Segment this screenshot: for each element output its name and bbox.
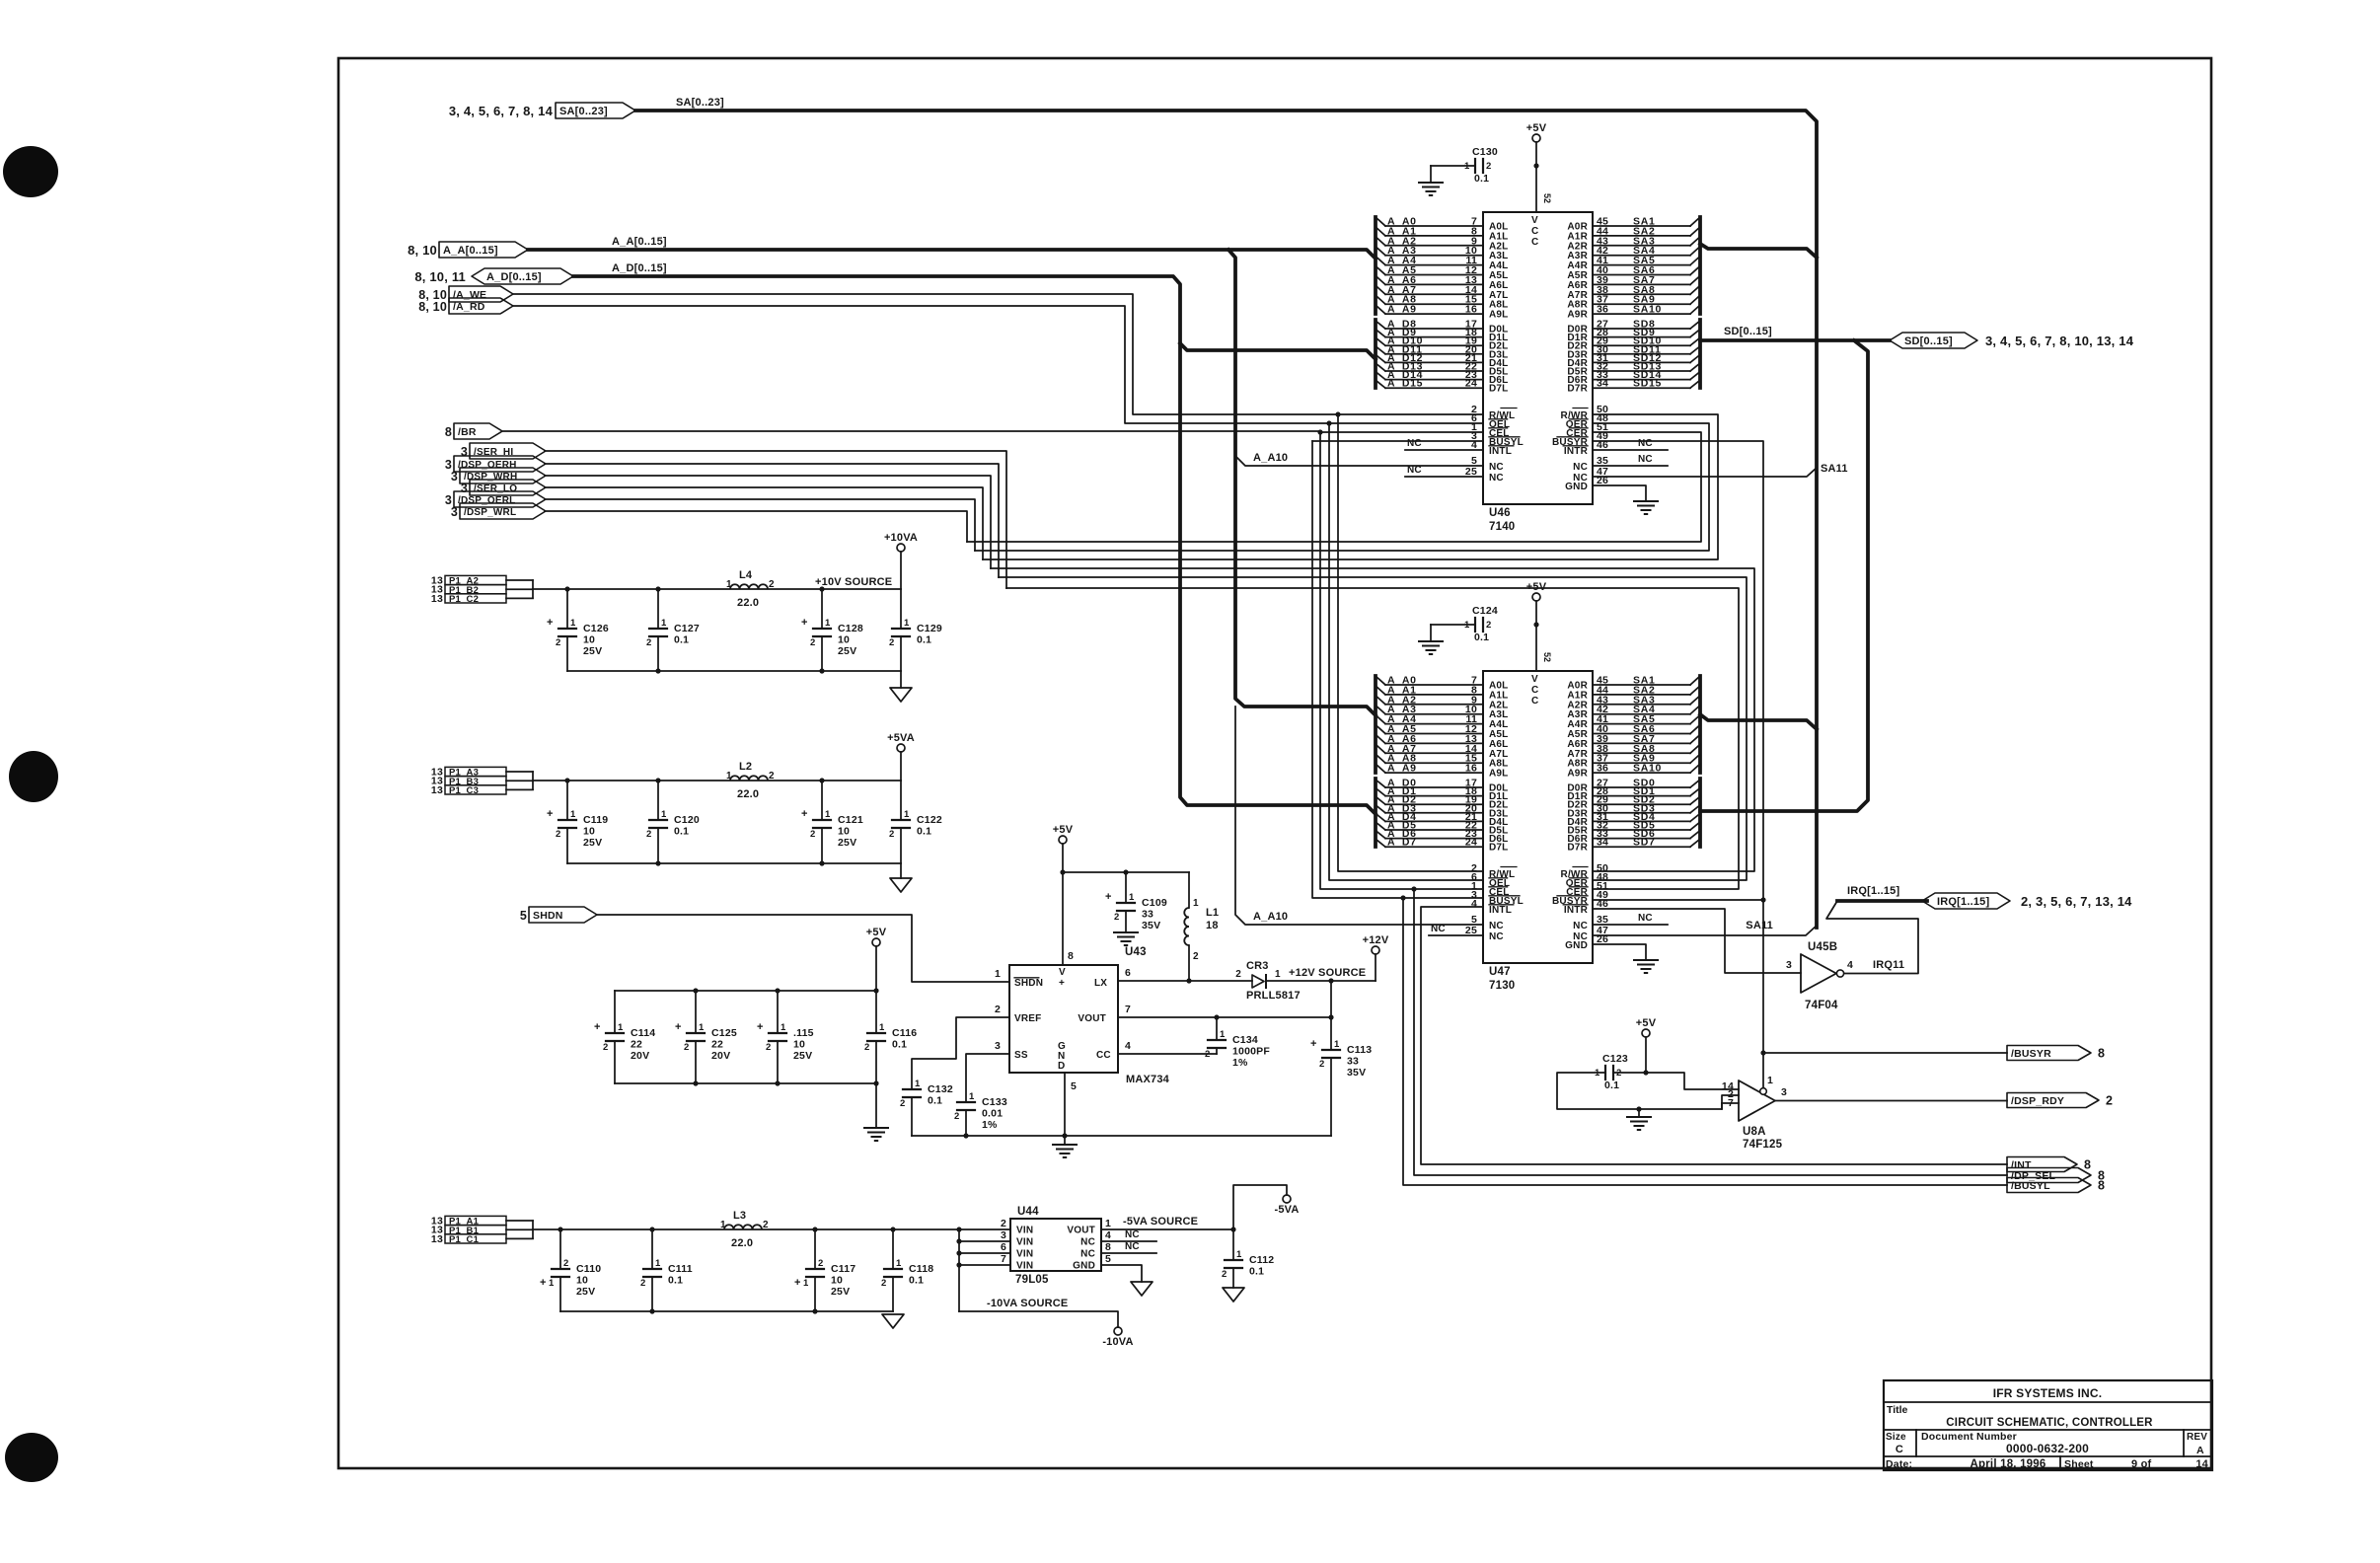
svg-text:0.1: 0.1 — [892, 1039, 907, 1051]
capacitor C111 0.1 — [651, 1229, 653, 1269]
junction C128 top — [819, 586, 824, 591]
wire A_A10 tap to U47 pin5 — [1235, 707, 1483, 925]
svg-text:35V: 35V — [1142, 920, 1160, 931]
svg-text:/BR: /BR — [458, 426, 477, 438]
svg-text:2: 2 — [646, 637, 651, 648]
inductor L2 22.0 — [726, 761, 775, 800]
svg-text:V: V — [1531, 674, 1538, 685]
power +5V for U43 V+ — [1059, 836, 1067, 844]
svg-text:2: 2 — [763, 1220, 769, 1230]
junction C125 top — [693, 988, 698, 993]
svg-text:7130: 7130 — [1489, 980, 1515, 992]
wire U8A enable pin 1 — [1762, 1053, 1764, 1088]
bus entries SD0-SD7 from U47 right — [1567, 778, 1700, 854]
power -10VA — [1114, 1327, 1122, 1335]
IC U46 7140 dual-port RAM body — [1483, 212, 1593, 504]
punch hole bottom-left — [5, 1433, 58, 1482]
signal tag /SER_HI — [470, 443, 546, 459]
ground for C112 — [1223, 1288, 1244, 1302]
bus A_A[0..15] trunk wire — [528, 250, 1376, 259]
junction VIN pin7 — [956, 1262, 961, 1267]
inductor L1 18 — [1188, 872, 1190, 908]
svg-text:+: + — [675, 1021, 682, 1033]
signal tag /DSP_WRL — [460, 503, 546, 519]
svg-text:2: 2 — [810, 637, 815, 648]
wire SA11 from U46 pin47 — [1593, 468, 1817, 477]
svg-text:0.1: 0.1 — [909, 1275, 924, 1287]
wire U44 VIN feed vertical — [958, 1229, 960, 1311]
svg-text:2: 2 — [769, 771, 775, 781]
junction C117 bottom — [812, 1308, 817, 1313]
svg-text:NC: NC — [1573, 462, 1588, 473]
svg-text:C121: C121 — [838, 814, 863, 826]
svg-text:A9L: A9L — [1489, 310, 1509, 321]
svg-text:A_A[0..15]: A_A[0..15] — [443, 245, 498, 257]
svg-text:+12V SOURCE: +12V SOURCE — [1289, 967, 1366, 979]
U46 pin35 NC stub — [1593, 465, 1668, 467]
bus tag A_D[0..15] — [472, 268, 573, 284]
bus entries A_A0-A_A9 into U46 left — [1376, 216, 1509, 321]
capacitor C115 10 25V — [777, 991, 779, 1033]
junction C115 top — [775, 988, 780, 993]
junction C121 top — [819, 778, 824, 782]
svg-text:1: 1 — [969, 1091, 975, 1102]
svg-text:52: 52 — [1542, 193, 1552, 203]
wire /BR to U46 CEL — [502, 431, 1483, 432]
wire C123 left loop to ground node — [1557, 1073, 1739, 1109]
junction C127 bottom — [655, 668, 660, 673]
capacitor C127 0.1 — [657, 589, 659, 629]
svg-text:L3: L3 — [733, 1210, 746, 1222]
wire V+ node to L1 — [1063, 871, 1189, 873]
output tag /DP_SEL — [2007, 1168, 2091, 1183]
wire +5V down to C123 node — [1645, 1037, 1647, 1073]
capacitor C133 0.01 1% — [957, 1101, 975, 1103]
svg-text:-5VA SOURCE: -5VA SOURCE — [1123, 1216, 1198, 1228]
svg-text:D: D — [1058, 1061, 1065, 1072]
junction C120 bottom — [655, 860, 660, 865]
junction C113 at VOUT — [1328, 1014, 1333, 1019]
ground for U47 — [1634, 959, 1658, 961]
wire U43 GND pin 5 — [1064, 1073, 1066, 1136]
svg-text:P1_C2: P1_C2 — [449, 594, 479, 605]
svg-text:0.1: 0.1 — [928, 1095, 942, 1107]
wire A_A10 tap to U46 pin5 — [1235, 456, 1483, 466]
svg-text:SA11: SA11 — [1821, 463, 1848, 475]
svg-text:+: + — [801, 808, 808, 820]
wire -10V filter ground rail — [560, 1310, 893, 1312]
svg-text:+: + — [794, 1277, 801, 1289]
svg-text:U47: U47 — [1489, 966, 1511, 978]
svg-text:SHDN: SHDN — [533, 910, 563, 922]
junction ground node U8A — [1636, 1106, 1641, 1111]
capacitor C114 22 20V — [614, 991, 616, 1033]
junction C109 top — [1123, 869, 1128, 874]
svg-text:REV: REV — [2187, 1432, 2207, 1443]
svg-text:April 18, 1996: April 18, 1996 — [1971, 1458, 2046, 1470]
junction C115 bottom — [775, 1080, 780, 1085]
svg-text:2: 2 — [1319, 1059, 1324, 1070]
inductor L3 22.0 — [720, 1210, 769, 1249]
svg-text:SA11: SA11 — [1746, 920, 1773, 931]
U46 INTL NC stub — [1405, 449, 1483, 451]
svg-text:INTR: INTR — [1564, 905, 1589, 916]
svg-text:/DSP_OERH: /DSP_OERH — [458, 460, 517, 471]
svg-text:20V: 20V — [711, 1050, 730, 1062]
svg-text:P1_C3: P1_C3 — [449, 785, 479, 796]
junction R/WL net at U46 — [1335, 411, 1340, 416]
svg-text:L2: L2 — [739, 761, 752, 773]
svg-text:C117: C117 — [831, 1263, 855, 1275]
svg-text:V: V — [1059, 967, 1066, 978]
wire IRQ11 from U45B output — [1826, 901, 1918, 974]
bus SA[0..23] trunk wire — [635, 111, 1817, 928]
svg-text:C: C — [1531, 696, 1538, 707]
svg-text:C: C — [1531, 226, 1538, 237]
svg-text:C114: C114 — [631, 1027, 655, 1039]
punch hole top-left — [3, 146, 58, 197]
svg-text:+12V: +12V — [1363, 934, 1389, 946]
power +12V — [1372, 946, 1379, 954]
svg-text:0.1: 0.1 — [1474, 173, 1489, 185]
svg-text:C122: C122 — [917, 814, 942, 826]
svg-text:1: 1 — [1767, 1075, 1773, 1086]
power -5VA — [1283, 1195, 1291, 1203]
junction C110 top — [558, 1227, 562, 1231]
wire to ground +10V filter — [900, 671, 902, 688]
wire BUSYR net U46 to U47 — [1593, 441, 1763, 900]
wire R/WL net U46 to U47 — [1338, 414, 1483, 871]
svg-text:GND: GND — [1565, 940, 1588, 951]
ground for U44 — [1131, 1282, 1153, 1296]
svg-text:NC: NC — [1638, 438, 1653, 449]
svg-text:3, 4, 5, 6, 7, 8, 10, 13, 14: 3, 4, 5, 6, 7, 8, 10, 13, 14 — [1985, 334, 2134, 348]
svg-text:3: 3 — [1786, 959, 1792, 971]
svg-text:2: 2 — [603, 1042, 608, 1053]
svg-text:1: 1 — [720, 1220, 726, 1230]
wire C116 to ground — [875, 1083, 877, 1128]
junction C119 top — [564, 778, 569, 782]
svg-text:2: 2 — [889, 829, 894, 840]
junction BUSYL net to /BUSYL — [1400, 895, 1405, 900]
svg-text:2: 2 — [769, 579, 775, 590]
svg-text:1: 1 — [896, 1258, 902, 1269]
svg-text:/DSP_RDY: /DSP_RDY — [2011, 1095, 2064, 1107]
junction C133 bottom rail — [963, 1133, 968, 1138]
svg-text:10: 10 — [583, 634, 595, 646]
capacitor C125 22 20V — [695, 991, 697, 1033]
svg-text:INTL: INTL — [1489, 446, 1512, 457]
bus SA elbow from U47 to SA trunk — [1700, 714, 1817, 729]
punch hole middle-left — [9, 751, 58, 802]
svg-text:C134: C134 — [1232, 1034, 1258, 1046]
svg-text:+5V: +5V — [1526, 122, 1547, 134]
svg-text:22: 22 — [631, 1039, 642, 1051]
svg-text:2, 3, 5, 6, 7, 13, 14: 2, 3, 5, 6, 7, 13, 14 — [2021, 894, 2132, 909]
svg-text:V: V — [1531, 215, 1538, 226]
svg-text:8, 10: 8, 10 — [408, 243, 437, 258]
svg-text:34: 34 — [1597, 837, 1608, 849]
svg-text:A_D[0..15]: A_D[0..15] — [486, 271, 542, 283]
wire U43 pin8 — [1062, 872, 1064, 965]
wire /DSP_OERH staircase run — [545, 464, 999, 577]
svg-text:1: 1 — [549, 1278, 555, 1289]
wire +5VA filter input rail — [533, 780, 901, 781]
svg-text:C116: C116 — [892, 1027, 917, 1039]
svg-text:36: 36 — [1597, 304, 1608, 316]
svg-text:C130: C130 — [1472, 146, 1498, 158]
signal tag /A_WE — [449, 286, 513, 302]
ground for U46 — [1634, 500, 1658, 502]
svg-text:22.0: 22.0 — [731, 1237, 753, 1249]
svg-text:C118: C118 — [909, 1263, 933, 1275]
svg-text:A_A9: A_A9 — [1387, 763, 1417, 775]
svg-text:25V: 25V — [838, 645, 856, 657]
capacitor C120 0.1 — [657, 781, 659, 820]
ground for U43 — [1053, 1144, 1077, 1146]
wire BUSYL net U46 to U47 — [1312, 441, 1483, 898]
svg-text:A: A — [2196, 1445, 2204, 1456]
svg-text:D7R: D7R — [1567, 384, 1588, 395]
svg-text:NC: NC — [1125, 1241, 1140, 1252]
svg-text:NC: NC — [1125, 1229, 1140, 1240]
junction OEL net at U46 — [1326, 420, 1331, 425]
svg-text:20V: 20V — [631, 1050, 649, 1062]
svg-text:2: 2 — [646, 829, 651, 840]
IC U47 7130 dual-port RAM body — [1483, 671, 1593, 963]
svg-text:10: 10 — [831, 1275, 843, 1287]
svg-text:+: + — [801, 617, 808, 629]
svg-text:C127: C127 — [674, 623, 700, 634]
svg-text:3: 3 — [1781, 1086, 1787, 1098]
svg-text:33: 33 — [1142, 909, 1153, 921]
svg-text:2: 2 — [881, 1278, 886, 1289]
svg-text:A_A[0..15]: A_A[0..15] — [612, 236, 667, 248]
capacitor C119 10 25V — [566, 781, 568, 820]
junction C118 top — [890, 1227, 895, 1231]
svg-text:22.0: 22.0 — [737, 788, 759, 800]
svg-text:PRLL5817: PRLL5817 — [1246, 990, 1301, 1002]
svg-text:5: 5 — [520, 909, 527, 923]
svg-text:7: 7 — [1001, 1253, 1006, 1265]
signal tag /BR — [454, 423, 502, 439]
svg-text:+: + — [757, 1021, 764, 1033]
svg-text:1: 1 — [803, 1278, 809, 1289]
svg-text:25V: 25V — [576, 1286, 595, 1298]
svg-text:1: 1 — [1129, 892, 1135, 903]
bus tag IRQ[1..15] — [1922, 893, 2010, 909]
capacitor C110 10 25V — [559, 1229, 561, 1269]
svg-text:1: 1 — [915, 1079, 921, 1089]
wire analog ground rail — [912, 1135, 1331, 1137]
svg-text:8: 8 — [1068, 950, 1074, 962]
svg-text:-10VA: -10VA — [1102, 1336, 1133, 1348]
svg-text:25V: 25V — [793, 1050, 812, 1062]
wire +5V to U47 VCC — [1535, 601, 1537, 671]
ground +5V rail — [864, 1127, 888, 1129]
svg-text:33: 33 — [1347, 1056, 1359, 1068]
signal tag /DSP_WRH — [460, 468, 546, 484]
svg-text:SA10: SA10 — [1633, 763, 1662, 775]
wire CEL net to /DP_SEL tag — [1414, 889, 2007, 1175]
svg-text:U44: U44 — [1017, 1206, 1039, 1218]
svg-text:22: 22 — [711, 1039, 723, 1051]
svg-text:CR3: CR3 — [1246, 960, 1269, 972]
capacitor C117 10 25V — [814, 1229, 816, 1269]
svg-text:2: 2 — [889, 637, 894, 648]
junction GND rail — [1062, 1133, 1067, 1138]
svg-text:1: 1 — [781, 1022, 786, 1033]
svg-text:4: 4 — [1471, 898, 1477, 910]
junction BUSYR net at U47 — [1760, 897, 1765, 902]
svg-text:10: 10 — [838, 634, 850, 646]
wire /DSP_WRH staircase run — [545, 476, 991, 568]
svg-text:25V: 25V — [583, 645, 602, 657]
wire CEL net U46 to U47 — [1320, 432, 1483, 889]
svg-text:+5V: +5V — [1636, 1017, 1657, 1029]
junction C127 top — [655, 586, 660, 591]
wire /DSP_OERL to U46 OER — [975, 423, 1709, 551]
junction VIN pin6 — [956, 1250, 961, 1255]
wire U44 NC pin4 stub — [1101, 1240, 1156, 1242]
svg-text:2: 2 — [818, 1258, 823, 1269]
svg-text:3: 3 — [451, 470, 458, 484]
svg-text:A9L: A9L — [1489, 769, 1509, 780]
wire -10V filter input rail — [533, 1228, 1010, 1230]
svg-text:IRQ11: IRQ11 — [1873, 959, 1904, 971]
svg-text:1: 1 — [570, 809, 576, 820]
svg-text:4: 4 — [1125, 1040, 1131, 1052]
svg-text:CC: CC — [1096, 1050, 1111, 1061]
U46 GND pin wire — [1593, 485, 1646, 501]
wire C123 right to U8A pin14 — [1613, 1073, 1739, 1089]
svg-text:9 of: 9 of — [2131, 1458, 2151, 1470]
junction VIN pin3 — [956, 1238, 961, 1243]
svg-text:NC: NC — [1080, 1237, 1095, 1248]
svg-text:IRQ[1..15]: IRQ[1..15] — [1847, 885, 1899, 897]
bus tag SD[0..15] — [1890, 333, 1977, 348]
svg-text:SD7: SD7 — [1633, 837, 1656, 849]
wire LX to diode and +12V — [1118, 980, 1252, 982]
U47 right control pin names — [1552, 862, 1608, 951]
buffer U8A 74F125 — [1722, 1075, 1787, 1151]
svg-text:1: 1 — [699, 1022, 705, 1033]
svg-text:L4: L4 — [739, 569, 753, 581]
title block — [1884, 1380, 2212, 1470]
svg-text:16: 16 — [1465, 304, 1477, 316]
capacitor C124 0.1 bypass for U47 — [1474, 618, 1476, 632]
wire U44 VOUT to -5VA node — [1101, 1228, 1233, 1230]
svg-text:2: 2 — [640, 1278, 645, 1289]
svg-text:D7R: D7R — [1567, 843, 1588, 854]
svg-text:25V: 25V — [838, 837, 856, 849]
svg-text:6: 6 — [1125, 967, 1131, 979]
output tag /BUSYR — [2007, 1046, 2091, 1061]
svg-text:/DSP_WRL: /DSP_WRL — [464, 507, 516, 518]
wire /DSP_WRH to U47 R/WR — [991, 568, 1754, 871]
svg-text:10: 10 — [838, 826, 850, 838]
svg-text:L1: L1 — [1206, 907, 1219, 919]
svg-text:+: + — [1105, 891, 1112, 903]
junction BUSYR to /BUSYR tag — [1760, 1050, 1765, 1055]
capacitor C130 0.1 bypass for U46 — [1474, 159, 1476, 173]
bus SD trunk down to U47 — [1700, 340, 1868, 811]
bus entries A_D8-A_D15 into U46 left — [1376, 319, 1509, 395]
svg-text:C128: C128 — [838, 623, 863, 634]
junction CEL net to /DP_SEL — [1411, 886, 1416, 891]
connector pins P1_A1 P1_B1 P1_C1 — [431, 1216, 533, 1246]
signal tag /A_RD — [449, 298, 513, 314]
svg-text:1: 1 — [879, 1022, 885, 1033]
wire BUSYR net down to U8A enable — [1762, 900, 1764, 1053]
svg-text:D7L: D7L — [1489, 384, 1509, 395]
wire U47 INTL to /INT tag — [1421, 907, 2007, 1164]
svg-text:/SER_LO: /SER_LO — [474, 484, 517, 494]
svg-text:0.1: 0.1 — [668, 1275, 683, 1287]
svg-text:8: 8 — [2098, 1178, 2105, 1192]
U47 GND pin wire — [1593, 944, 1646, 960]
capacitor C112 0.1 — [1232, 1229, 1234, 1260]
svg-text:2: 2 — [556, 637, 560, 648]
svg-text:SD[0..15]: SD[0..15] — [1904, 335, 1953, 347]
svg-text:C109: C109 — [1142, 897, 1167, 909]
svg-text:VIN: VIN — [1016, 1261, 1033, 1272]
svg-text:IRQ[1..15]: IRQ[1..15] — [1937, 896, 1989, 908]
svg-text:52: 52 — [1542, 652, 1552, 662]
svg-text:1: 1 — [995, 968, 1001, 980]
svg-text:+5V: +5V — [1053, 824, 1074, 836]
junction C117 top — [812, 1227, 817, 1231]
inverter U45B 74F04 — [1786, 941, 1853, 1011]
svg-text:10: 10 — [576, 1275, 588, 1287]
svg-text:SD[0..15]: SD[0..15] — [1724, 326, 1772, 337]
U47 pin35 NC stub — [1593, 924, 1668, 926]
bus A_D branch to U46 wire — [1180, 343, 1376, 359]
wire VREF to C132 — [912, 1017, 1009, 1089]
inductor L4 22.0 — [726, 569, 775, 609]
svg-text:2: 2 — [1235, 969, 1241, 980]
svg-text:A_D15: A_D15 — [1387, 378, 1423, 390]
svg-text:2: 2 — [900, 1098, 905, 1109]
junction C128 bottom — [819, 668, 824, 673]
svg-text:P1_C1: P1_C1 — [449, 1234, 480, 1245]
svg-text:.115: .115 — [793, 1027, 814, 1039]
capacitor C132 0.1 — [903, 1088, 921, 1090]
svg-text:SA[0..23]: SA[0..23] — [676, 97, 724, 109]
svg-text:VOUT: VOUT — [1067, 1226, 1095, 1236]
svg-text:+10VA: +10VA — [884, 532, 918, 544]
junction /BR to U47 CEL vertical — [1317, 429, 1322, 434]
wire SHDN to MAX734 — [597, 915, 1009, 982]
svg-text:1: 1 — [1275, 969, 1281, 980]
svg-text:Sheet: Sheet — [2064, 1458, 2094, 1470]
svg-text:2: 2 — [1486, 620, 1491, 631]
svg-text:C126: C126 — [583, 623, 609, 634]
svg-text:NC: NC — [1573, 921, 1588, 931]
wire +5VA filter ground rail — [567, 862, 901, 864]
svg-text:CIRCUIT SCHEMATIC, CONTROLLE: CIRCUIT SCHEMATIC, CONTROLLER — [1946, 1417, 2153, 1429]
wire +5V cap rail top — [615, 990, 876, 992]
svg-text:+: + — [1310, 1038, 1317, 1050]
ground for C109 — [1114, 931, 1138, 933]
U46 INTR NC stub — [1593, 449, 1668, 451]
capacitor C113 33 35V — [1330, 981, 1332, 1050]
svg-text:7: 7 — [1125, 1004, 1131, 1015]
bus tag A_A[0..15] — [439, 242, 528, 258]
output tag /BUSYL — [2007, 1178, 2091, 1193]
page border frame — [338, 58, 2211, 1468]
IC U43 MAX734 body — [1009, 965, 1170, 1085]
